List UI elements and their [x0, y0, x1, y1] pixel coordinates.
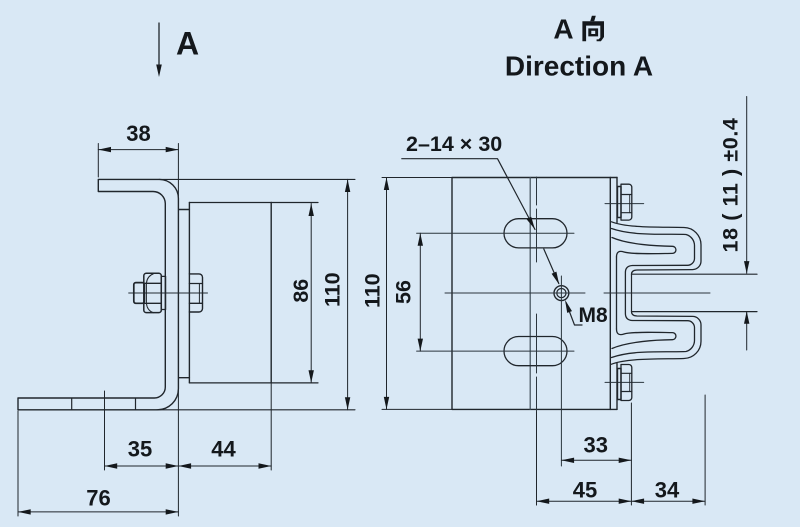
bolt end [134, 283, 145, 304]
centerlines [417, 177, 710, 505]
dim 86 [310, 204, 312, 383]
bottom tab washer + hex [618, 369, 622, 400]
svg-text:M8: M8 [579, 304, 608, 327]
body (rubber mount) rectangle [189, 203, 271, 383]
leader M8 [566, 303, 582, 326]
slots [504, 219, 567, 248]
A arrow line [158, 23, 160, 66]
top tab washer + hex [618, 187, 622, 218]
M8 hole [554, 286, 569, 301]
76 [18, 509, 31, 514]
arrowheads left view [18, 65, 350, 515]
svg-text:86: 86 [289, 279, 313, 303]
86 [309, 204, 314, 217]
svg-text:45: 45 [573, 478, 597, 503]
svg-text:44: 44 [211, 437, 236, 462]
hand-drawn CJK glyph 向 (title) [582, 16, 604, 41]
34 [631, 499, 644, 504]
arrowheads right view [384, 178, 750, 504]
svg-text:34: 34 [655, 478, 680, 503]
44 arrows [178, 463, 191, 468]
56 [418, 233, 423, 246]
dim 35 44 [105, 383, 272, 516]
contour1 vertical [616, 257, 618, 329]
svg-text:A: A [176, 26, 199, 62]
bolt centerline [129, 292, 208, 294]
35 [105, 463, 118, 468]
flange slot edge ticks [72, 398, 136, 409]
svg-text:110: 110 [361, 273, 385, 308]
38 [98, 147, 111, 152]
dim 76 [17, 411, 19, 516]
leader arrows [527, 217, 535, 230]
svg-text:A: A [553, 14, 573, 45]
fold middle contour wrapping recess [612, 229, 695, 358]
18 [744, 261, 749, 274]
bolt hex head [144, 273, 162, 312]
top fold outer [612, 222, 702, 274]
svg-text:2–14 × 30: 2–14 × 30 [406, 132, 502, 156]
svg-text:33: 33 [583, 433, 607, 458]
33/45/34 exts [537, 395, 706, 505]
svg-text:76: 76 [86, 486, 110, 511]
A arrow [156, 65, 162, 78]
110R [384, 178, 389, 191]
dim 110 left [347, 179, 349, 409]
110 right bottom ext [382, 408, 452, 410]
svg-text:18 ( 11 ) ±0.4: 18 ( 11 ) ±0.4 [718, 118, 742, 253]
bottom edge extension line for 110 [157, 409, 355, 411]
svg-text:110: 110 [320, 272, 344, 307]
slot pocket bottom fold [612, 329, 676, 349]
33 [561, 458, 574, 463]
110 right [382, 178, 452, 410]
dimension and title texts [86, 14, 742, 511]
slot pocket top fold [612, 238, 676, 258]
rubber mount profile [612, 222, 758, 364]
18 dim [746, 97, 748, 351]
56 [419, 233, 421, 351]
bottom fold outer [612, 312, 702, 365]
svg-text:Direction A: Direction A [505, 51, 653, 82]
svg-text:56: 56 [392, 280, 416, 304]
center section [632, 274, 758, 312]
dim 38 [98, 144, 178, 197]
bend line [529, 178, 531, 410]
washer [161, 276, 165, 309]
leader 2-14x30 [402, 159, 535, 230]
right hex boss [189, 274, 202, 312]
110 left [345, 179, 350, 192]
mount plate tabs [179, 210, 190, 378]
svg-text:35: 35 [128, 437, 152, 462]
45 [537, 499, 550, 504]
svg-text:38: 38 [126, 121, 150, 146]
front plate rectangle [452, 178, 617, 410]
top edge extension line for 110 [159, 178, 355, 180]
bracket bent-plate outline [18, 179, 178, 409]
